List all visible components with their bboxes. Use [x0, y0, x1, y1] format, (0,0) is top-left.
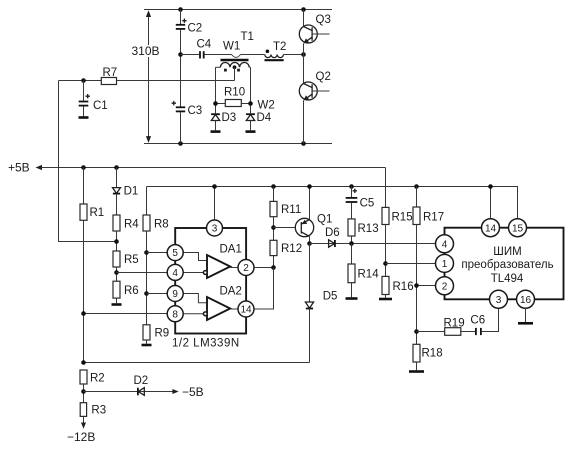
resistor R11 [270, 187, 301, 241]
svg-text:R5: R5 [124, 254, 139, 266]
svg-text:R3: R3 [91, 405, 106, 417]
svg-text:DA1: DA1 [220, 244, 242, 256]
wire pin3 stub [214, 187, 216, 221]
node C1 tap [81, 78, 86, 83]
wire pin1 line [386, 263, 437, 265]
node bias line / pin3 [212, 184, 217, 189]
node +5V / R1 [81, 165, 86, 170]
op-amp DA2 [203, 286, 241, 321]
op-amp DA1 input wires [183, 253, 207, 261]
svg-text:−12В: −12В [67, 430, 95, 444]
svg-text:14: 14 [240, 305, 252, 316]
T1 core [221, 59, 249, 61]
node bias line / R17 [414, 184, 419, 189]
resistor R15 [382, 168, 413, 277]
diode D3 [211, 112, 237, 132]
pin 2 [238, 260, 254, 276]
wire left column down from R7 line [59, 81, 117, 242]
svg-text:D1: D1 [124, 186, 139, 198]
resistor R8 [143, 187, 169, 325]
svg-text:4: 4 [442, 239, 448, 250]
transformer T2 [265, 41, 287, 60]
transistor Q3 [299, 10, 331, 55]
node W2 right / R10 [248, 101, 253, 106]
resistor R17 [413, 187, 444, 345]
pin 3 [490, 290, 508, 308]
svg-text:T1: T1 [241, 31, 254, 43]
svg-text:TL494: TL494 [491, 273, 524, 285]
wire Q1 base [274, 227, 295, 229]
capacitor C1 [79, 81, 108, 118]
svg-text:R2: R2 [90, 373, 105, 385]
node C4 line / C2-C3 junction [178, 52, 183, 57]
svg-text:310В: 310В [132, 44, 160, 58]
resistor R6 [113, 281, 139, 303]
wire R19/C6 line to pin3 [417, 308, 499, 331]
resistor R19 [444, 318, 465, 336]
pin 3 [207, 220, 223, 236]
wire D2 line [84, 391, 175, 393]
resistor R1 [80, 168, 104, 363]
transistor Q2 [299, 55, 331, 144]
svg-text:C2: C2 [188, 23, 203, 35]
node bottom rail / Q2 [301, 141, 306, 146]
svg-text:W1: W1 [223, 41, 240, 53]
node +5V / D1 [114, 165, 119, 170]
svg-text:C5: C5 [360, 198, 375, 210]
svg-text:16: 16 [520, 295, 532, 306]
svg-text:1: 1 [442, 259, 448, 270]
resistor R7 [101, 67, 117, 85]
resistor R2 [80, 370, 105, 403]
310V dimension line with arrows [132, 10, 160, 143]
diode D2 [134, 375, 149, 395]
svg-text:R12: R12 [281, 243, 302, 255]
svg-text:3: 3 [496, 295, 502, 306]
pin 14 [238, 301, 254, 317]
node top rail / Q3 [301, 7, 306, 12]
wire T2 to Q column [283, 54, 303, 56]
IC body TL494 [445, 228, 564, 300]
-5V arrow and label [172, 385, 203, 399]
svg-text:преобразователь: преобразователь [461, 259, 553, 271]
node T2 / Q3-Q2 midpoint [301, 52, 306, 57]
node W2 left / R10 [213, 101, 218, 106]
pin 1 [436, 254, 454, 272]
svg-text:2: 2 [442, 281, 448, 292]
svg-text:R9: R9 [155, 328, 170, 340]
node Q1 emitter / D6 / D5 [307, 241, 312, 246]
svg-text:8: 8 [172, 309, 178, 320]
svg-text:R16: R16 [393, 281, 414, 293]
capacitor C2 [176, 10, 202, 55]
pin 14 [482, 219, 500, 237]
wire D6 line to TL494 pin 4 [310, 243, 437, 245]
node R1 column / bottom rail [81, 360, 86, 365]
wire top rail 310V [144, 9, 332, 11]
svg-text:R8: R8 [154, 219, 169, 231]
svg-text:9: 9 [172, 289, 178, 300]
svg-text:R6: R6 [124, 285, 139, 297]
+5V label and arrow [8, 161, 386, 175]
svg-text:R1: R1 [90, 207, 105, 219]
svg-text:−5В: −5В [182, 385, 204, 399]
wire W2 left leg [215, 67, 217, 113]
svg-text:R17: R17 [423, 212, 444, 224]
resistor R5 [113, 251, 139, 281]
resistor R4 [113, 215, 139, 251]
wire pin8 from R1 column [84, 313, 168, 315]
op-amp DA2 input wires [183, 294, 207, 303]
node R17 column / R19 line / R18 [414, 329, 419, 334]
diode D6 [325, 227, 340, 247]
node R15/R16/pin1 [383, 261, 388, 266]
resistor R10 [216, 87, 251, 107]
svg-text:2: 2 [243, 263, 249, 274]
wire bottom rail to R2 column [84, 362, 310, 364]
resistor R3 [80, 403, 106, 425]
wire R7 line from left column to W2 center tap [59, 80, 235, 82]
transistor Q1 [295, 187, 332, 244]
node R11/R12/Q1 base [271, 225, 276, 230]
node R4/R5 junction [114, 239, 119, 244]
node R2/R3/D2 [81, 389, 86, 394]
ground under R6 [112, 303, 122, 306]
pin 15 [509, 219, 527, 237]
svg-text:R10: R10 [224, 87, 245, 99]
wire pin9 [147, 293, 168, 295]
wire W2 right leg [250, 67, 252, 113]
node bias line / pin14 drop [488, 184, 493, 189]
svg-text:+5В: +5В [8, 161, 30, 175]
svg-text:W2: W2 [258, 100, 275, 112]
node R8/pin5 [144, 250, 149, 255]
node bias line / C5 [349, 184, 354, 189]
wire pin2 line [417, 285, 437, 287]
svg-text:1/2 LM339N: 1/2 LM339N [172, 338, 240, 350]
svg-text:Q2: Q2 [316, 71, 331, 83]
diode D4 [246, 112, 272, 132]
svg-text:T2: T2 [273, 41, 286, 53]
resistor R12 [270, 240, 302, 267]
wire pin14 drop [490, 187, 492, 219]
svg-text:Q3: Q3 [316, 14, 331, 26]
svg-text:D3: D3 [222, 112, 237, 124]
svg-text:D2: D2 [134, 375, 149, 387]
svg-text:C6: C6 [470, 315, 485, 327]
node bias line / R11 [271, 184, 276, 189]
pin 5 [167, 245, 183, 261]
node R13/R14/D6 line [349, 241, 354, 246]
svg-text:ШИМ: ШИМ [493, 246, 521, 258]
svg-text:R7: R7 [103, 67, 118, 79]
svg-text:15: 15 [512, 223, 524, 234]
node R1 column / pin8 wire [81, 311, 86, 316]
wire pin14 up to output node [254, 268, 274, 310]
resistor R9 [142, 325, 170, 345]
pin 4 [436, 235, 454, 253]
capacitor C6 [470, 315, 485, 336]
svg-text:R18: R18 [422, 348, 443, 360]
capacitor C3 [172, 55, 203, 144]
node bias line / Q1 collector [307, 184, 312, 189]
pin 2 [436, 277, 454, 295]
node top rail / C2 [178, 7, 183, 12]
label TL494 internals [461, 246, 553, 285]
resistor R16 [379, 276, 414, 299]
svg-text:Q1: Q1 [317, 214, 332, 226]
wire pin2 to R12 bottom [254, 267, 274, 269]
svg-text:5: 5 [172, 248, 178, 259]
node R17 column / pin2 line [414, 283, 419, 288]
capacitor C4 [181, 39, 219, 59]
svg-text:R4: R4 [124, 219, 139, 231]
pin 4 [167, 264, 183, 280]
resistor R13 [348, 219, 379, 244]
wire bottom rail of top section [144, 143, 332, 145]
capacitor C5 [346, 187, 375, 219]
svg-text:D6: D6 [325, 227, 340, 239]
-12V arrow and label [67, 423, 95, 445]
resistor R14 [346, 244, 380, 299]
svg-text:R14: R14 [358, 269, 380, 281]
svg-text:C3: C3 [188, 105, 203, 117]
svg-text:D5: D5 [323, 291, 338, 303]
pin 9 [167, 286, 183, 302]
IC body LM339 [175, 228, 246, 334]
wire pin4 from R5/R6 node [117, 272, 168, 274]
wire W2 center tap down-left to R7 line [234, 67, 236, 80]
pin 16 [517, 290, 535, 308]
diode D5 [305, 244, 337, 363]
svg-text:3: 3 [212, 224, 218, 235]
svg-text:R11: R11 [281, 204, 301, 216]
transformer T1 winding W2 [216, 62, 275, 111]
node R12 / pin2 / pin14 [271, 265, 276, 270]
svg-text:14: 14 [485, 223, 497, 234]
svg-text:DA2: DA2 [220, 286, 242, 298]
svg-text:4: 4 [172, 268, 178, 279]
svg-text:R15: R15 [392, 212, 413, 224]
node R8R9/pin9 [144, 291, 149, 296]
transformer T1 winding W1 [219, 31, 265, 57]
svg-text:D4: D4 [257, 112, 272, 124]
svg-text:R13: R13 [358, 223, 379, 235]
svg-text:R19: R19 [444, 318, 465, 330]
node bottom rail / C3 [178, 141, 183, 146]
node R5/R6 junction [114, 270, 119, 275]
resistor R18 [409, 344, 443, 371]
diode D1 [113, 168, 139, 216]
wire bias line from R8 to TL494 pin15 [147, 187, 518, 219]
op-amp DA1 [203, 244, 241, 279]
svg-text:C1: C1 [93, 100, 108, 112]
ground under pin 16 [518, 308, 533, 323]
svg-text:C4: C4 [197, 39, 212, 51]
pin 8 [167, 306, 183, 322]
wire pin5 [147, 252, 168, 254]
